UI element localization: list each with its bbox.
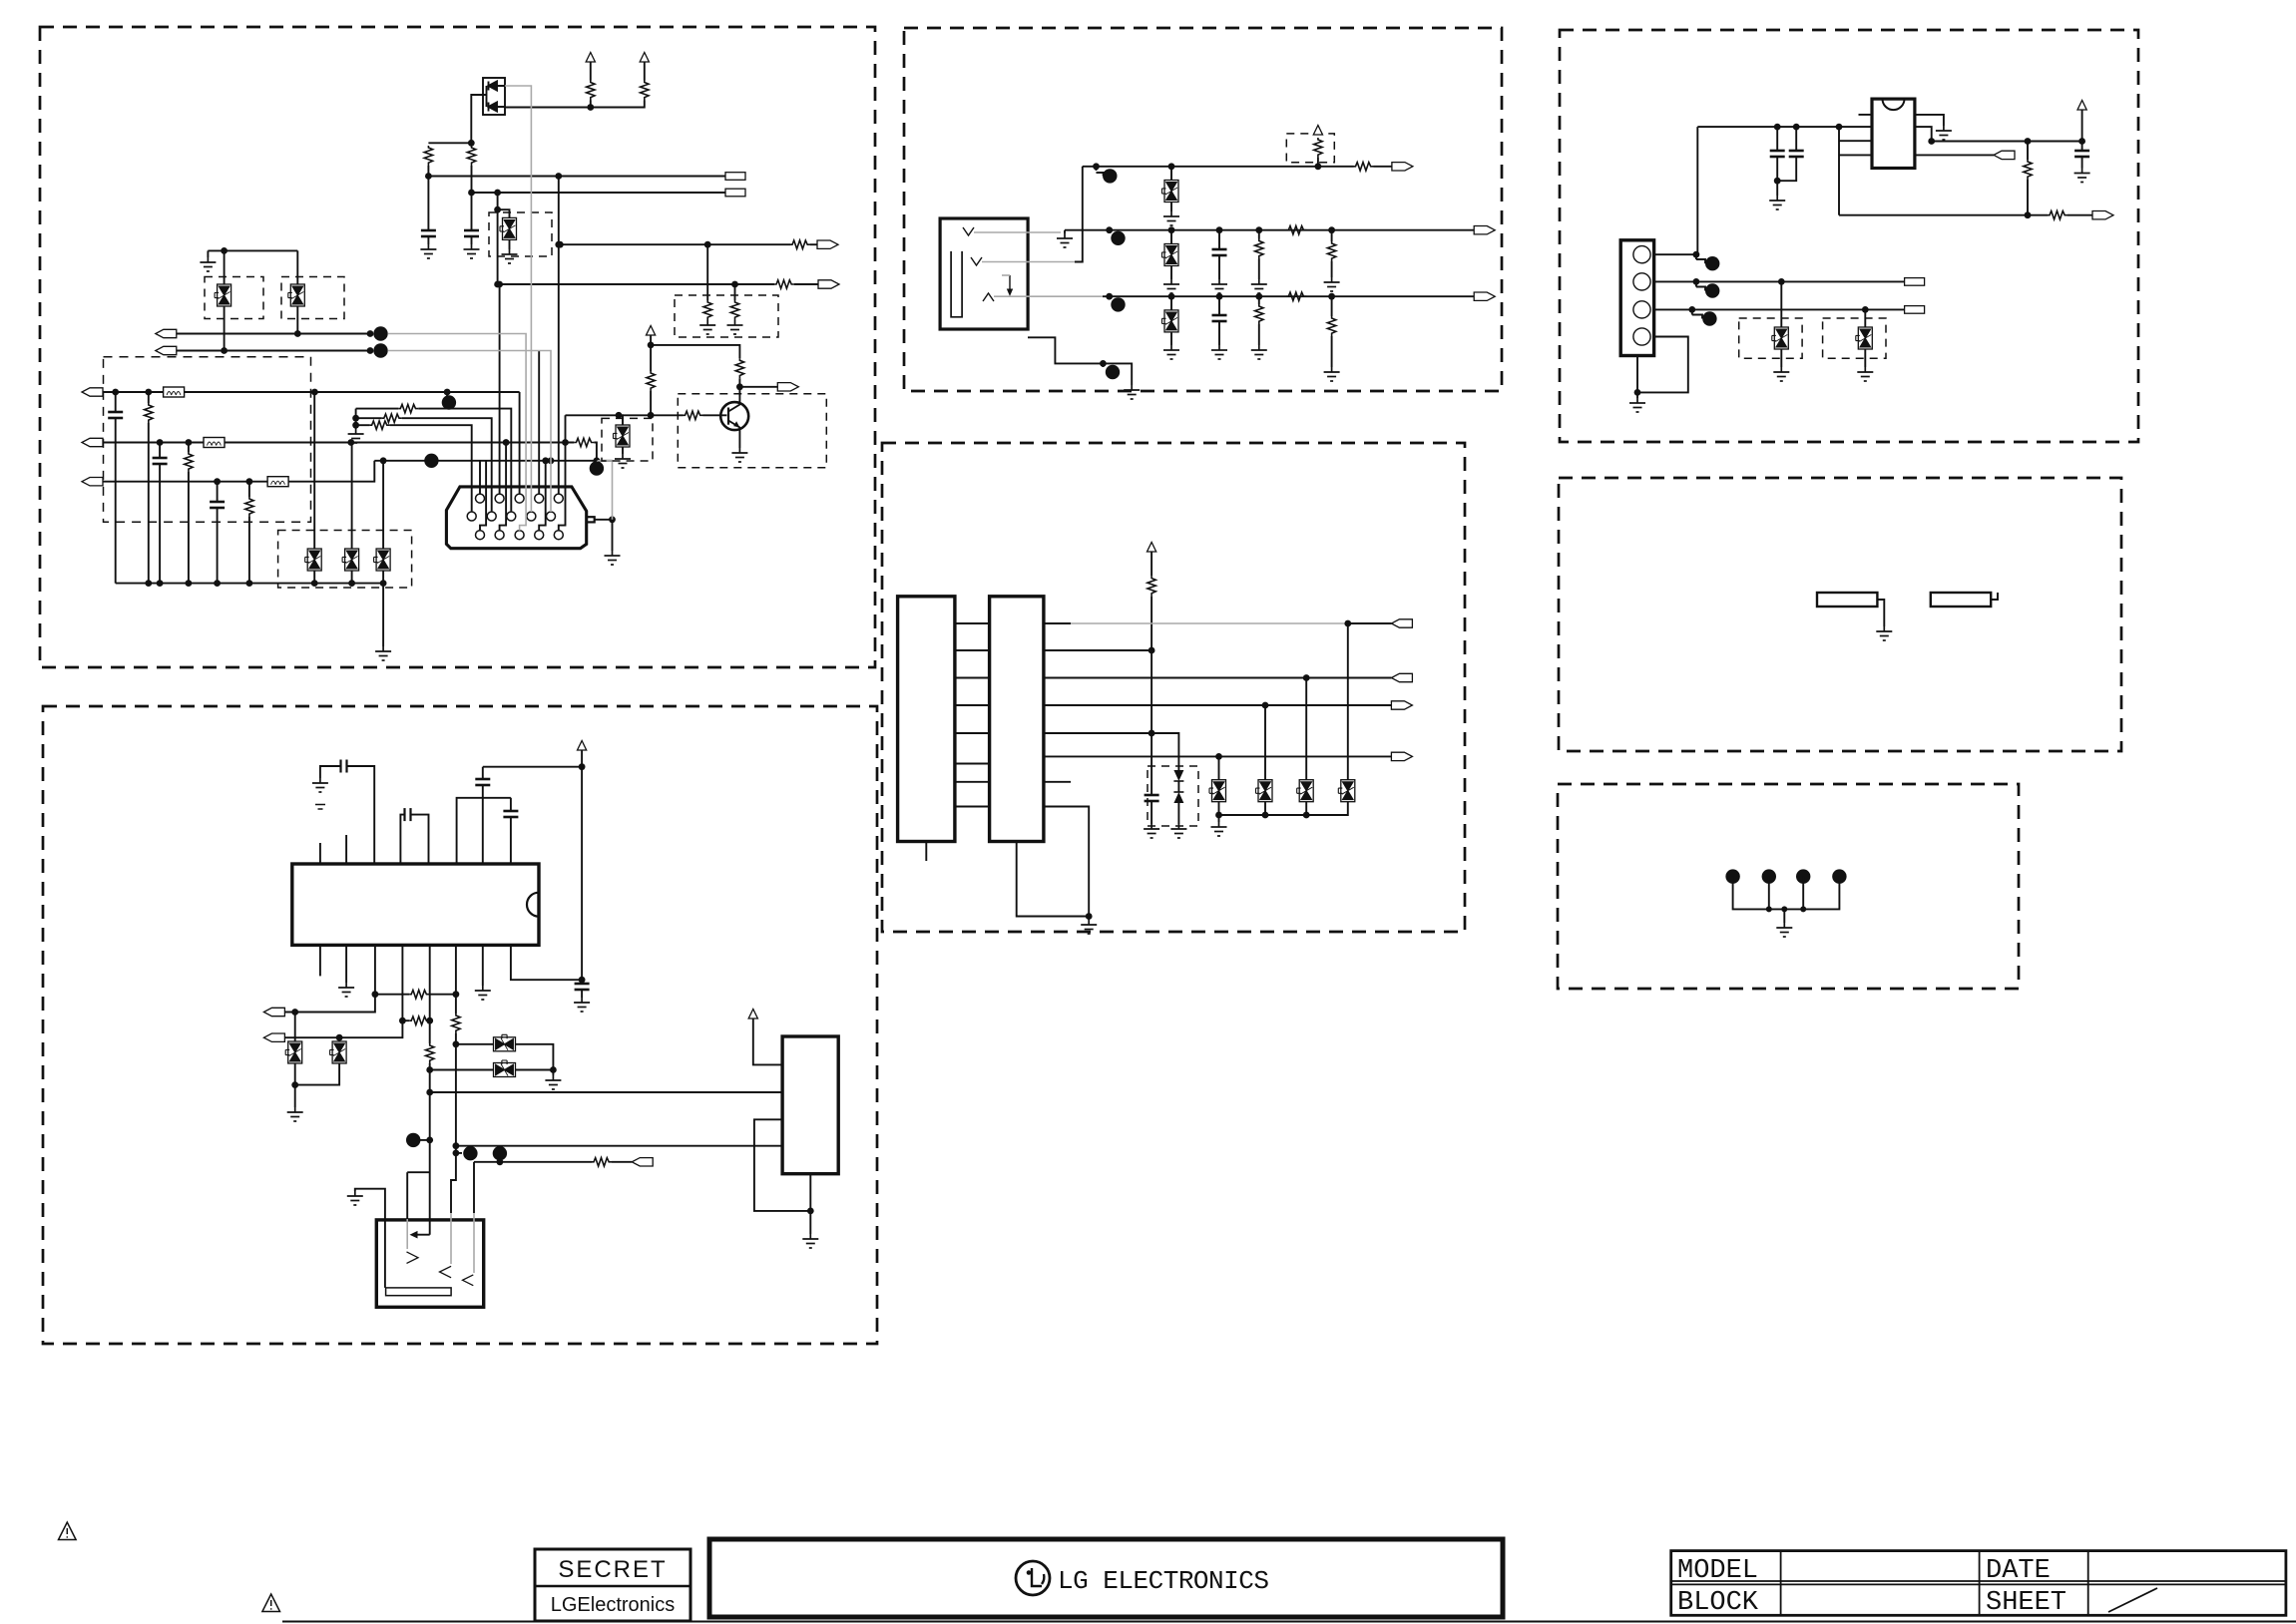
resistor R21 (409, 1016, 429, 1024)
node J51 (579, 977, 586, 984)
node J108 (1693, 278, 1700, 285)
node J2 (587, 104, 594, 111)
dashed box ZA3 (205, 277, 263, 319)
resistor R40 (1148, 577, 1155, 597)
ground jack shield (1057, 233, 1073, 247)
ferrite bead FB1 (164, 387, 185, 397)
resistor R30 (1314, 138, 1322, 158)
node J32 (145, 580, 152, 587)
wire lead top pin5 (558, 177, 560, 495)
node J106 (2025, 211, 2032, 218)
node J83 (1100, 360, 1107, 367)
node J110 (1688, 306, 1695, 313)
wire line6 (1044, 755, 1392, 757)
node J53 (453, 991, 460, 998)
IC U5 notch (1883, 99, 1905, 110)
dashed box Q1 (678, 394, 826, 468)
node J36 (246, 580, 253, 587)
svg-text:LGElectronics: LGElectronics (551, 1594, 676, 1616)
wire U1 bottom pin7 (482, 945, 484, 986)
wire U1 bottom pin2 (345, 945, 347, 983)
terminal P6 (156, 346, 177, 354)
capacitor C5 (210, 502, 225, 508)
node J43 (616, 412, 623, 419)
capacitor C4 (153, 458, 168, 464)
resistor R36 (1255, 304, 1263, 324)
svg-text:DATE: DATE (1986, 1556, 2051, 1586)
dashed box ZA5 (602, 418, 653, 461)
wire ZE1 feed (1780, 281, 1782, 327)
connector CN1 right tab (587, 517, 595, 522)
node big B13 (1102, 363, 1104, 367)
ground ZA8 (502, 249, 518, 263)
node J44 (648, 412, 655, 419)
svg-text:BLOCK: BLOCK (1677, 1588, 1759, 1618)
terminal P21 (1474, 226, 1495, 234)
node J46 (736, 383, 743, 390)
wire line OUT2 y=193 (472, 192, 726, 194)
node J28 (380, 457, 387, 464)
zener ZB2 (330, 1041, 347, 1063)
node big BG4 (1832, 869, 1846, 883)
wire line2 (1044, 649, 1151, 651)
wire line y=334.5 (177, 333, 371, 335)
wire line y=245 (560, 243, 790, 245)
node J48 (352, 422, 359, 429)
wire ZD1 top (1218, 756, 1220, 779)
node J81 (1255, 293, 1262, 300)
node J18 (145, 389, 152, 396)
node J5 (468, 190, 475, 197)
ground ZE2 (1857, 367, 1873, 381)
ground R36 (1251, 345, 1267, 359)
wire line B y=461.8 (374, 460, 612, 462)
wire CN2 pin1 (1654, 127, 1698, 254)
wire R36 leads (1258, 296, 1260, 345)
node J111 (1862, 306, 1869, 313)
wire U1 pin1 stub (319, 843, 321, 864)
wire zener bottoms to bus (314, 571, 383, 584)
capacitor C1 (421, 230, 436, 236)
jack arrow (1009, 275, 1011, 292)
resistor R4 (641, 81, 649, 101)
ground U4 (1081, 920, 1097, 934)
wire R3 bottom (590, 101, 592, 108)
resistor R41 (2024, 160, 2032, 180)
dashed box ZE2 (1823, 318, 1886, 358)
node J100 (1774, 124, 1781, 131)
wire U5 right pin row2 (1915, 127, 1932, 141)
svg-text:MODEL: MODEL (1677, 1556, 1758, 1586)
ground R37 (1324, 367, 1340, 381)
bar resistor RB2 (1931, 593, 1991, 607)
wire ground link into box (355, 1189, 385, 1288)
sheet slash (2108, 1588, 2157, 1612)
node J99 (1303, 812, 1310, 819)
jack contact v2 (971, 257, 982, 265)
power arrow VCC6 (1313, 126, 1322, 136)
resistor R12 (356, 408, 399, 410)
capacitor C12 (503, 811, 518, 817)
terminal P25 (1391, 701, 1412, 709)
grey signal wires (388, 86, 613, 531)
node J72 (1315, 163, 1322, 170)
resistor R33 (1255, 239, 1263, 259)
dual diode D1 package (483, 78, 505, 115)
resistor R9 (145, 403, 153, 423)
ground left of zeners (207, 250, 209, 257)
ground left of box (347, 1191, 363, 1205)
dashed box diode clamp (1148, 766, 1198, 826)
node J112 (1634, 389, 1641, 396)
node J7 (494, 206, 501, 213)
wire CN2 pin2 line (1654, 280, 1905, 282)
IC U4 (990, 597, 1044, 842)
wire ZB3 line (456, 1044, 554, 1070)
warning triangle 1 (59, 1522, 77, 1540)
wire VCC4 stem (581, 750, 583, 767)
node J96 (1086, 913, 1093, 920)
ground ZE1 (1773, 367, 1789, 381)
wire ground bus (1733, 877, 1840, 910)
node J52 (372, 991, 379, 998)
model table column dividers (1781, 1551, 2088, 1616)
connector CN1 pins top row (476, 494, 564, 503)
svg-text:SECRET: SECRET (558, 1556, 667, 1583)
wire line C3 (1103, 295, 1474, 297)
zener ZD2 (1256, 780, 1273, 802)
node J22 (186, 439, 193, 446)
resistor R42 (2048, 211, 2067, 219)
node big B20 (1695, 254, 1697, 259)
block C dashed border (904, 28, 1502, 391)
node J79 (1168, 293, 1175, 300)
ground C1 (420, 244, 436, 258)
jack J1 inner bar (951, 251, 962, 317)
wire U4 bottom pin (1017, 842, 1089, 917)
node J77 (1328, 226, 1335, 233)
wire ZB4 right ground (552, 1070, 554, 1076)
zener ZD4 (1338, 780, 1355, 802)
ground zener bus (1211, 822, 1227, 836)
receiver arrow (415, 1234, 430, 1236)
node J67 (807, 1208, 814, 1215)
block F dashed border (1559, 478, 2121, 751)
node J63 (453, 1142, 460, 1149)
capacitor C11 (405, 808, 411, 821)
wire grey line2 to mid pin5 (388, 351, 551, 513)
wire R18 bottom (738, 378, 740, 387)
wire ZE2 feed (1864, 309, 1866, 327)
node J97 (1215, 812, 1222, 819)
wire col456 jog (451, 1153, 456, 1213)
wire R17 leads (650, 345, 652, 415)
connector CN1 body (446, 487, 586, 549)
wire lead top pin3 (519, 392, 521, 494)
node J105 (2078, 138, 2085, 145)
wire RB1 right jog to ground (1877, 600, 1884, 626)
node J31 (594, 457, 601, 464)
wire top zener bus (208, 249, 297, 251)
wire C10 right to pin3 (347, 766, 375, 864)
wire VCC7 stem (1150, 552, 1152, 577)
IC U1 notch (527, 893, 539, 917)
wire U3-U4 stubs (955, 623, 990, 807)
wire C13 top to VCC node (483, 766, 582, 768)
ground CN1 (605, 551, 621, 565)
wire line5 (1044, 732, 1151, 734)
wire VCC8 stem (2081, 110, 2083, 142)
node big B10 (1096, 167, 1098, 171)
wire lead top pin1 (479, 461, 481, 494)
node J30 (548, 457, 555, 464)
capacitor C10 (341, 760, 347, 773)
node big B6 (406, 1133, 420, 1147)
wire bus to ground (382, 584, 384, 646)
connector CN1 pins bottom row (476, 531, 564, 540)
node J75 (1216, 226, 1223, 233)
wire lead bottom pin5 (559, 415, 566, 530)
node big B1 (373, 326, 387, 340)
wire C4 leads (159, 443, 161, 584)
wire U5 right pin row3 to terminal (1915, 154, 1994, 156)
wire R37 leads (1331, 296, 1333, 367)
jack contact v1 (963, 227, 974, 235)
wire C12 leads (510, 798, 512, 864)
resistor R22 vertical (426, 1043, 434, 1063)
wire zener ZC3 feed (1170, 296, 1172, 310)
terminal P4 (818, 280, 839, 288)
ground D2 (1170, 824, 1186, 838)
ground ZB4 (545, 1075, 561, 1089)
node J26 (214, 478, 221, 485)
capacitor C21 (1212, 315, 1227, 321)
zener ZA5 (614, 425, 631, 447)
terminal P12 (263, 1033, 284, 1041)
node J107 (1693, 251, 1700, 258)
wire ZD4 top (1347, 623, 1349, 780)
terminal P28 (2092, 211, 2113, 219)
ground C10 (312, 778, 328, 792)
zener ZC2 (1162, 244, 1179, 266)
ground R8 (727, 320, 743, 334)
terminal P20 (1392, 163, 1413, 171)
wire U1 bottom pin1 stub (319, 945, 321, 976)
capacitor C22 (1145, 795, 1159, 801)
wire ZB4 line (430, 1069, 554, 1071)
node J113 (1928, 138, 1935, 145)
node J78 (1106, 293, 1113, 300)
zener ZB3 horizontal (494, 1034, 516, 1051)
node J8 (557, 241, 564, 248)
node J47 (352, 415, 359, 422)
wire R10 leads (188, 443, 190, 584)
wire U1 bottom pin3 (374, 945, 376, 994)
resistor R5 (790, 240, 810, 248)
wire U1 pin6 riser (457, 798, 511, 864)
ground CN2 (1629, 398, 1645, 412)
wire U5 lower loop (1839, 154, 1872, 156)
wire R42 to terminal (2067, 214, 2092, 216)
node big B8 (493, 1146, 507, 1160)
wire C32 leads (2081, 142, 2083, 169)
zener ZA4 (288, 284, 305, 306)
wire C14 bottom (581, 990, 583, 998)
terminal P8 (82, 438, 103, 446)
dashed box A2 three zeners (278, 531, 412, 589)
zener ZB1 (285, 1041, 302, 1063)
IC U1 (292, 864, 539, 945)
wire transistor base line y=416.3 (566, 414, 684, 416)
chevron contact 1 (407, 1252, 419, 1264)
zener ZE2 (1856, 327, 1873, 349)
node J109 (1778, 278, 1785, 285)
terminal P13 (632, 1158, 653, 1166)
ground ZA5 (615, 454, 631, 468)
node J10 (494, 281, 501, 288)
resistor R31 (1354, 163, 1374, 171)
zener ZA9 (305, 549, 322, 571)
node J9 (704, 241, 711, 248)
node J65 (453, 1150, 460, 1157)
bar resistor RB1 (1817, 593, 1877, 607)
wire ZA10 top (351, 443, 353, 550)
wire B7 stub (456, 1152, 462, 1154)
resistor R17 (647, 371, 655, 391)
node J14 (367, 330, 374, 337)
wire lead top pin2 (499, 284, 501, 494)
node J40 (609, 516, 616, 523)
node J74 (1168, 226, 1175, 233)
wire C13 leads (482, 767, 484, 864)
grey line1 (1071, 622, 1348, 624)
terminal P26 (1391, 752, 1412, 760)
dashed box A1 input filter (104, 357, 311, 523)
wire line C4 from jack bottom (1028, 337, 1132, 385)
wire RB2 right jog (1991, 593, 1998, 600)
wire ZC1 bottom (1170, 203, 1172, 212)
node J6 (494, 190, 501, 197)
wire U4 stub7 (1044, 781, 1071, 783)
dashed box ZA4 (281, 277, 344, 319)
wire ZA3 bottom (224, 306, 226, 351)
node big B7 (463, 1146, 477, 1160)
wire VCC3 to R18 (651, 345, 739, 358)
resistor R6 (774, 280, 794, 288)
terminal P30 (1905, 306, 1925, 314)
wire C31 leads (1777, 127, 1796, 181)
node J90 (1344, 620, 1351, 627)
node J60 (453, 1040, 460, 1047)
wire R30 bottom (1317, 158, 1319, 167)
capacitor C13 (475, 779, 490, 785)
ground caps (1769, 196, 1785, 209)
node J41 (496, 281, 503, 288)
model table row divider (1671, 1581, 2286, 1584)
dashed box ZE1 (1739, 318, 1802, 358)
wire to ground (809, 1211, 811, 1234)
node J92 (1303, 674, 1310, 681)
wire grey line1 to bottom pin3 (388, 334, 526, 531)
node J35 (214, 580, 221, 587)
node J70 (1093, 163, 1100, 170)
node J45 (648, 342, 655, 349)
connector CN1 pins middle row (467, 512, 555, 521)
node big B12 (1109, 296, 1111, 299)
wire VCC3 stem (650, 335, 652, 345)
IC U5 (1872, 99, 1915, 168)
node J25 (562, 439, 569, 446)
terminal P10 (777, 383, 798, 391)
wire CN2 pin3 line (1654, 308, 1905, 310)
wire ZA3 top (224, 250, 226, 284)
terminal P23 (1391, 619, 1412, 627)
ground C14 (574, 998, 590, 1012)
block E dashed border (1560, 30, 2138, 442)
node J16 (367, 347, 374, 354)
wire U2 bottom pin (809, 1174, 811, 1211)
wire line T3 y=482.7 (103, 461, 374, 482)
wire bottom bus y=584.6 (116, 583, 383, 585)
wire C2 bottom (471, 236, 473, 244)
wire T4 line (284, 995, 375, 1013)
wire U5 top-right to ground (1915, 115, 1944, 126)
jack J1 body (940, 218, 1028, 329)
block G dashed border (1558, 784, 2019, 989)
main title box (709, 1539, 1503, 1617)
terminal P27 (1994, 151, 2015, 159)
wire line y=285 (498, 283, 774, 285)
zener ZE1 (1772, 327, 1789, 349)
resistor R8 (730, 300, 738, 320)
chevron contact 2 (440, 1266, 452, 1278)
wire col456 down (455, 1044, 457, 1153)
power arrow VCC3 (647, 326, 656, 336)
node J54 (291, 1009, 298, 1015)
wire line pin3-pin6 (375, 994, 409, 996)
node J38 (348, 580, 355, 587)
wire C10 left to ground (320, 766, 341, 778)
resistor R18 (735, 358, 743, 378)
ground line C4 (1124, 385, 1140, 399)
wire R2 bottom (471, 166, 473, 193)
wire line E2 (1932, 141, 2082, 143)
resistor R11 (245, 497, 253, 517)
wire C20 leads (1218, 230, 1220, 279)
wire grey tab riser (597, 461, 613, 520)
wire C11 left to pin4 (400, 815, 404, 864)
node J13 (294, 330, 301, 337)
ground U2 (802, 1234, 818, 1248)
optic connector box (376, 1220, 483, 1307)
wire zener bottom bus (1219, 802, 1348, 815)
wire C22 bottom (1150, 801, 1152, 824)
wire lead bottom pin2 (500, 443, 507, 531)
wire diode output line (505, 101, 645, 108)
wire lead mid pin1 (471, 439, 473, 512)
wire ZA4 top (296, 250, 298, 284)
node J98 (1262, 812, 1269, 819)
wire J1 to R1 top (428, 142, 471, 144)
wire C1 top (427, 177, 429, 231)
wire ZA4 bottom (296, 306, 298, 334)
node J76 (1255, 226, 1262, 233)
dashed box RA7 pair (675, 295, 778, 337)
ground bus (375, 646, 391, 660)
bottom frame line (282, 1621, 2296, 1623)
node J39 (380, 580, 387, 587)
wire B8 stub (499, 1153, 501, 1162)
